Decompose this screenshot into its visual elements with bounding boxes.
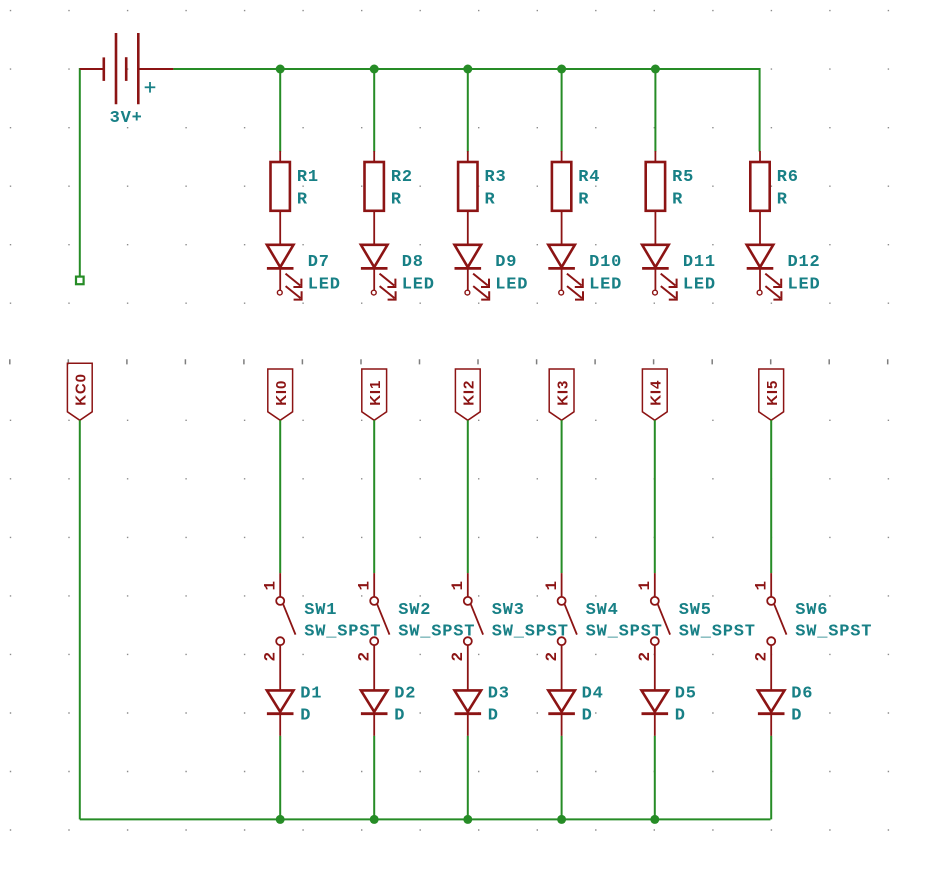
svg-text:2: 2: [262, 651, 280, 661]
svg-text:KI5: KI5: [764, 380, 781, 406]
LED D7: [267, 227, 302, 300]
svg-text:R: R: [777, 190, 788, 209]
junction bottom rail col 1: [276, 815, 285, 824]
svg-text:1: 1: [449, 580, 467, 590]
svg-text:D7: D7: [308, 253, 330, 272]
wire D4 to bottom rail: [561, 736, 563, 820]
svg-text:LED: LED: [402, 276, 435, 295]
svg-text:SW6: SW6: [795, 601, 828, 620]
svg-text:LED: LED: [495, 276, 528, 295]
LED D8: [361, 227, 396, 300]
svg-text:R: R: [672, 190, 683, 209]
svg-text:D: D: [300, 707, 311, 726]
resistor R5: [646, 151, 665, 227]
junction top bus col 1: [276, 65, 285, 74]
wire KI1 to SW2: [373, 420, 375, 573]
svg-text:SW_SPST: SW_SPST: [304, 623, 381, 642]
diode D1: [267, 670, 294, 736]
svg-text:R2: R2: [391, 168, 413, 187]
switch SW6 SW_SPST: [767, 573, 786, 670]
wire D5 to bottom rail: [654, 736, 656, 820]
svg-text:R: R: [297, 190, 308, 209]
svg-text:D5: D5: [675, 685, 697, 704]
svg-text:1: 1: [262, 580, 280, 590]
svg-text:2: 2: [543, 651, 561, 661]
wire KI3 to SW4: [561, 420, 563, 573]
wire D2 to bottom rail: [373, 736, 375, 820]
net label KI5 (global label): [759, 369, 784, 420]
svg-text:R: R: [485, 190, 496, 209]
junction top bus col 2: [370, 65, 379, 74]
svg-text:R4: R4: [578, 168, 600, 187]
svg-text:R6: R6: [777, 168, 799, 187]
svg-text:2: 2: [753, 651, 771, 661]
svg-text:D: D: [488, 707, 499, 726]
wire KI5 to SW6: [770, 420, 772, 573]
net label KI1 (global label): [362, 369, 387, 420]
svg-text:SW2: SW2: [398, 601, 431, 620]
svg-text:1: 1: [356, 580, 374, 590]
wire battery negative down: [80, 69, 104, 277]
svg-text:D9: D9: [495, 253, 517, 272]
svg-text:R1: R1: [297, 168, 319, 187]
wire KI4 to SW5: [654, 420, 656, 573]
wire top bus from battery to R6 column: [173, 69, 759, 152]
svg-text:SW_SPST: SW_SPST: [679, 623, 756, 642]
junction bottom rail col 4: [557, 815, 566, 824]
svg-text:KI0: KI0: [273, 380, 290, 406]
svg-text:R: R: [391, 190, 402, 209]
svg-text:2: 2: [636, 651, 654, 661]
svg-text:KI2: KI2: [461, 380, 478, 406]
svg-text:D3: D3: [488, 685, 510, 704]
junction top bus col 3: [463, 65, 472, 74]
svg-text:SW5: SW5: [679, 601, 712, 620]
wire D1 to bottom rail: [279, 736, 281, 820]
wire KI2 to SW3: [467, 420, 469, 573]
svg-text:LED: LED: [589, 276, 622, 295]
wire KC0 to bottom rail: [79, 420, 81, 819]
wire top bus to R3: [467, 69, 469, 152]
svg-text:KI1: KI1: [367, 380, 384, 406]
junction top bus col 4: [557, 65, 566, 74]
svg-text:D1: D1: [300, 685, 322, 704]
wire top bus to R1: [279, 69, 281, 152]
junction bottom rail col 2: [370, 815, 379, 824]
svg-text:D8: D8: [402, 253, 424, 272]
svg-text:SW_SPST: SW_SPST: [492, 623, 569, 642]
svg-text:R: R: [578, 190, 589, 209]
net label KI0 (global label): [268, 369, 293, 420]
svg-text:D10: D10: [589, 253, 622, 272]
net label KI4 (global label): [642, 369, 667, 420]
switch SW3 SW_SPST: [464, 573, 483, 670]
junction bottom rail col 3: [463, 815, 472, 824]
junction bottom rail col 5: [650, 815, 659, 824]
wire KI0 to SW1: [279, 420, 281, 573]
wire bottom rail: [80, 818, 771, 820]
diode D3: [455, 670, 482, 736]
svg-text:D6: D6: [791, 685, 813, 704]
svg-text:2: 2: [449, 651, 467, 661]
svg-text:D2: D2: [394, 685, 416, 704]
svg-text:1: 1: [753, 580, 771, 590]
net label KI2 (global label): [455, 369, 480, 420]
wire top bus to R2: [373, 69, 375, 152]
LED D10: [548, 227, 583, 300]
svg-text:2: 2: [356, 651, 374, 661]
svg-text:D11: D11: [683, 253, 716, 272]
svg-text:D12: D12: [788, 253, 821, 272]
wire end marker (dangling): [76, 277, 84, 285]
wire top bus to R5: [654, 69, 656, 152]
svg-text:SW4: SW4: [586, 601, 619, 620]
diode D6: [758, 670, 785, 736]
svg-text:D: D: [582, 707, 593, 726]
diode D4: [548, 670, 575, 736]
wire top bus to R4: [561, 69, 563, 152]
switch SW5 SW_SPST: [651, 573, 670, 670]
svg-text:R5: R5: [672, 168, 694, 187]
svg-text:3V+: 3V+: [110, 109, 143, 128]
diode D2: [361, 670, 388, 736]
svg-text:LED: LED: [683, 276, 716, 295]
net label KI3 (global label): [549, 369, 574, 420]
svg-text:1: 1: [543, 580, 561, 590]
wire D3 to bottom rail: [467, 736, 469, 820]
LED D11: [642, 227, 677, 300]
svg-text:SW_SPST: SW_SPST: [795, 623, 872, 642]
switch SW4 SW_SPST: [558, 573, 577, 670]
svg-text:D: D: [675, 707, 686, 726]
resistor R4: [552, 151, 571, 227]
svg-text:KI3: KI3: [555, 380, 572, 406]
svg-text:LED: LED: [308, 276, 341, 295]
svg-text:LED: LED: [788, 276, 821, 295]
svg-text:D: D: [394, 707, 405, 726]
resistor R2: [365, 151, 384, 227]
LED D12: [747, 227, 782, 300]
svg-text:D: D: [791, 707, 802, 726]
svg-text:KI4: KI4: [648, 380, 665, 406]
battery BT1 3V+: [80, 33, 174, 104]
svg-text:SW3: SW3: [492, 601, 525, 620]
svg-text:1: 1: [636, 580, 654, 590]
resistor R6: [750, 151, 769, 227]
diode D5: [642, 670, 669, 736]
resistor R3: [458, 151, 477, 227]
switch SW2 SW_SPST: [370, 573, 389, 670]
svg-text:KC0: KC0: [73, 373, 90, 406]
switch SW1 SW_SPST: [276, 573, 295, 670]
svg-text:D4: D4: [582, 685, 604, 704]
svg-text:R3: R3: [485, 168, 507, 187]
net label KC0 (global label): [67, 363, 92, 420]
junction top bus col 5: [651, 65, 660, 74]
wire D6 to bottom rail: [770, 736, 772, 820]
resistor R1: [271, 151, 290, 227]
LED D9: [455, 227, 490, 300]
svg-text:SW1: SW1: [304, 601, 337, 620]
